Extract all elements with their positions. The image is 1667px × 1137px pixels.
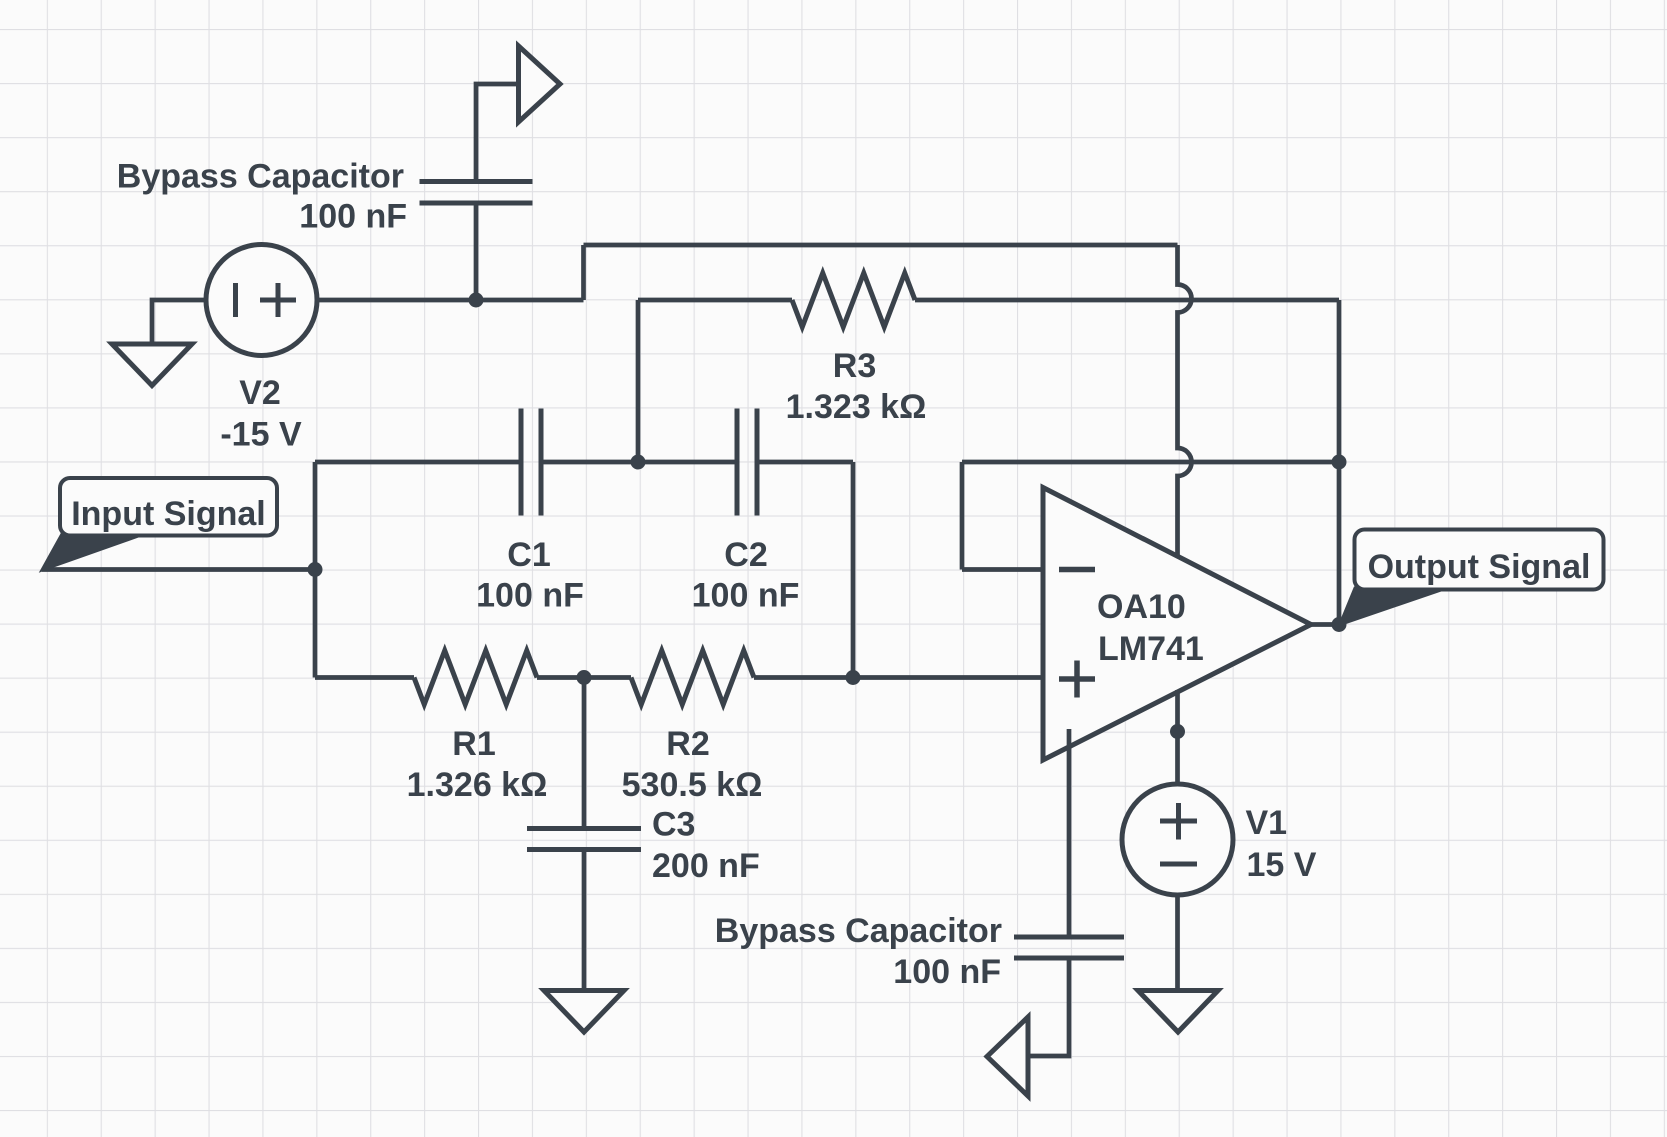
svg-text:Bypass Capacitor: Bypass Capacitor [715, 912, 1002, 950]
wire mid vertical to R3 [636, 300, 641, 462]
voltage source V1 [1122, 784, 1233, 895]
wire V1 top lead [1175, 732, 1180, 785]
node C2 right junction [846, 670, 861, 685]
svg-text:100 nF: 100 nF [893, 953, 1001, 991]
wire negative rail vertical with hops [1178, 245, 1192, 555]
wire V2 to top rail [584, 245, 1178, 300]
flag Input Signal [42, 478, 277, 570]
voltage source V2 [206, 245, 317, 356]
node bypass cap junction [469, 293, 484, 308]
resistor R3 [792, 273, 915, 327]
wire input signal horizontal [42, 567, 315, 572]
svg-text:R2: R2 [666, 725, 709, 763]
wire op-amp output [1311, 622, 1339, 627]
node output junction [1332, 617, 1347, 632]
node C1 C2 R3 junction [631, 455, 646, 470]
svg-text:1.323 kΩ: 1.323 kΩ [786, 388, 927, 426]
svg-text:Input Signal: Input Signal [71, 495, 266, 533]
resistor R1 [414, 651, 537, 705]
capacitor bypass bottom [1014, 937, 1124, 958]
wire right feedback vertical [1337, 300, 1342, 625]
node V1 supply junction [1170, 724, 1185, 739]
wire bypass cap upper lead [476, 84, 516, 182]
svg-text:C1: C1 [507, 536, 550, 574]
wire inverting input stub [962, 462, 1043, 570]
node feedback upper junction [1332, 455, 1347, 470]
wire C3 branch upper [582, 678, 587, 829]
svg-text:C3: C3 [652, 806, 695, 844]
net flag arrow top [519, 46, 561, 122]
svg-text:OA10: OA10 [1097, 588, 1186, 626]
svg-text:-15 V: -15 V [220, 416, 302, 454]
wire R3 row left [638, 298, 792, 303]
wire right filter vertical [851, 462, 856, 678]
wire left vertical [313, 462, 318, 678]
op-amp OA10 [1043, 488, 1311, 761]
capacitor bypass top [420, 182, 533, 204]
svg-text:R3: R3 [833, 347, 876, 385]
ground at V1 [1138, 991, 1218, 1033]
svg-text:V2: V2 [239, 374, 281, 412]
svg-text:C2: C2 [724, 536, 767, 574]
wire inverting input net [962, 460, 1339, 465]
wire R3 row right [915, 298, 1339, 303]
wire op-amp V+ pin [1175, 690, 1180, 732]
wire bypass bottom lead to flag [1031, 958, 1070, 1056]
svg-text:100 nF: 100 nF [476, 577, 584, 615]
wire top filter row [315, 460, 853, 465]
svg-text:200 nF: 200 nF [652, 847, 760, 885]
wire non-inverting input row [853, 675, 1043, 680]
wire C3 branch lower [582, 850, 587, 991]
svg-text:R1: R1 [452, 725, 495, 763]
svg-text:100 nF: 100 nF [299, 198, 407, 236]
flag Output Signal [1340, 530, 1604, 625]
svg-text:1.326 kΩ: 1.326 kΩ [407, 766, 548, 804]
wire V1 bottom lead [1175, 895, 1180, 991]
wire V2 ground leads [152, 300, 206, 344]
svg-text:15 V: 15 V [1247, 846, 1317, 884]
capacitor C3 [527, 829, 641, 850]
svg-text:V1: V1 [1246, 804, 1288, 842]
wire bypass cap lower lead [474, 203, 479, 300]
wire op-amp lower supply pin to bypass cap [1067, 729, 1072, 937]
wire bottom filter row [315, 675, 853, 680]
wire V2 output row [317, 298, 584, 303]
ground below C3 [544, 991, 624, 1033]
node R1 R2 C3 junction [577, 670, 592, 685]
ground at V2 [112, 344, 192, 386]
svg-text:530.5 kΩ: 530.5 kΩ [622, 766, 763, 804]
node input junction [308, 562, 323, 577]
svg-text:100 nF: 100 nF [692, 577, 800, 615]
svg-text:LM741: LM741 [1098, 630, 1204, 668]
resistor R2 [631, 651, 754, 705]
svg-text:Bypass Capacitor: Bypass Capacitor [117, 158, 404, 196]
capacitor C2 [737, 409, 757, 516]
net flag arrow bottom [987, 1017, 1028, 1096]
capacitor C1 [521, 409, 541, 516]
op-amp plus symbol [1059, 661, 1095, 698]
op-amp minus symbol [1059, 567, 1095, 573]
svg-text:Output Signal: Output Signal [1368, 548, 1591, 586]
